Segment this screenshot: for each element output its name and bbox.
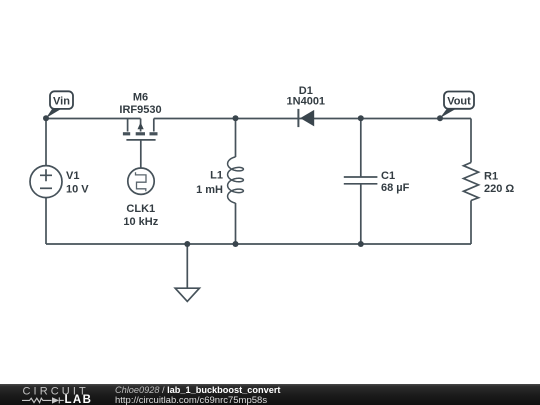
svg-text:1N4001: 1N4001 xyxy=(287,96,326,108)
svg-text:10 V: 10 V xyxy=(66,184,89,196)
junction dots xyxy=(43,115,443,247)
wire right rail (Vout corner down to R1) xyxy=(470,119,472,163)
ground xyxy=(175,288,199,301)
node Vin flag xyxy=(46,91,73,118)
svg-text:LAB: LAB xyxy=(65,394,93,405)
svg-text:IRF9530: IRF9530 xyxy=(119,104,161,116)
svg-text:68 µF: 68 µF xyxy=(381,182,410,194)
svg-text:Vin: Vin xyxy=(53,95,70,107)
wire top rail left (Vin node to M6 source corner) xyxy=(46,118,141,120)
wire V1 bottom to bottom rail xyxy=(45,198,47,244)
wire L1 top lead xyxy=(235,119,237,158)
resistor R1 xyxy=(464,163,479,201)
wire bottom rail xyxy=(46,243,471,245)
wire top rail right (M6 drain to Vout corner) xyxy=(154,118,471,120)
clock source CLK1 xyxy=(128,168,154,194)
wire ground stub xyxy=(186,244,188,288)
voltage source V1 xyxy=(30,166,62,198)
logo diode triangle xyxy=(52,397,59,403)
svg-text:1 mH: 1 mH xyxy=(196,184,223,196)
svg-text:M6: M6 xyxy=(133,91,148,103)
wire C1 top lead xyxy=(360,119,362,178)
wire L1 bottom lead xyxy=(235,203,237,244)
svg-text:220 Ω: 220 Ω xyxy=(484,183,514,195)
svg-text:10 kHz: 10 kHz xyxy=(123,216,158,228)
wire R1 bottom to bottom rail xyxy=(470,201,472,245)
wire C1 bottom lead xyxy=(360,184,362,244)
node Vout flag xyxy=(440,92,474,119)
svg-text:Vout: Vout xyxy=(447,96,471,108)
inductor L1 xyxy=(228,157,244,203)
wire M6 gate to CLK1 xyxy=(140,140,142,168)
svg-text:Chloe0928 / lab_1_buckboost_co: Chloe0928 / lab_1_buckboost_convert xyxy=(115,385,280,395)
svg-text:C1: C1 xyxy=(381,170,395,182)
diode D1 xyxy=(298,109,314,127)
capacitor C1 xyxy=(344,177,378,184)
transistor M6 (PMOS) xyxy=(123,119,158,140)
svg-text:L1: L1 xyxy=(210,170,223,182)
wire left rail (Vin node down to V1 top) xyxy=(45,119,47,166)
svg-text:R1: R1 xyxy=(484,171,498,183)
svg-text:http://circuitlab.com/c69nrc75: http://circuitlab.com/c69nrc75mp58s xyxy=(115,395,267,405)
svg-text:V1: V1 xyxy=(66,170,79,182)
svg-text:CLK1: CLK1 xyxy=(126,203,155,215)
logo zigzag diode xyxy=(22,397,64,403)
